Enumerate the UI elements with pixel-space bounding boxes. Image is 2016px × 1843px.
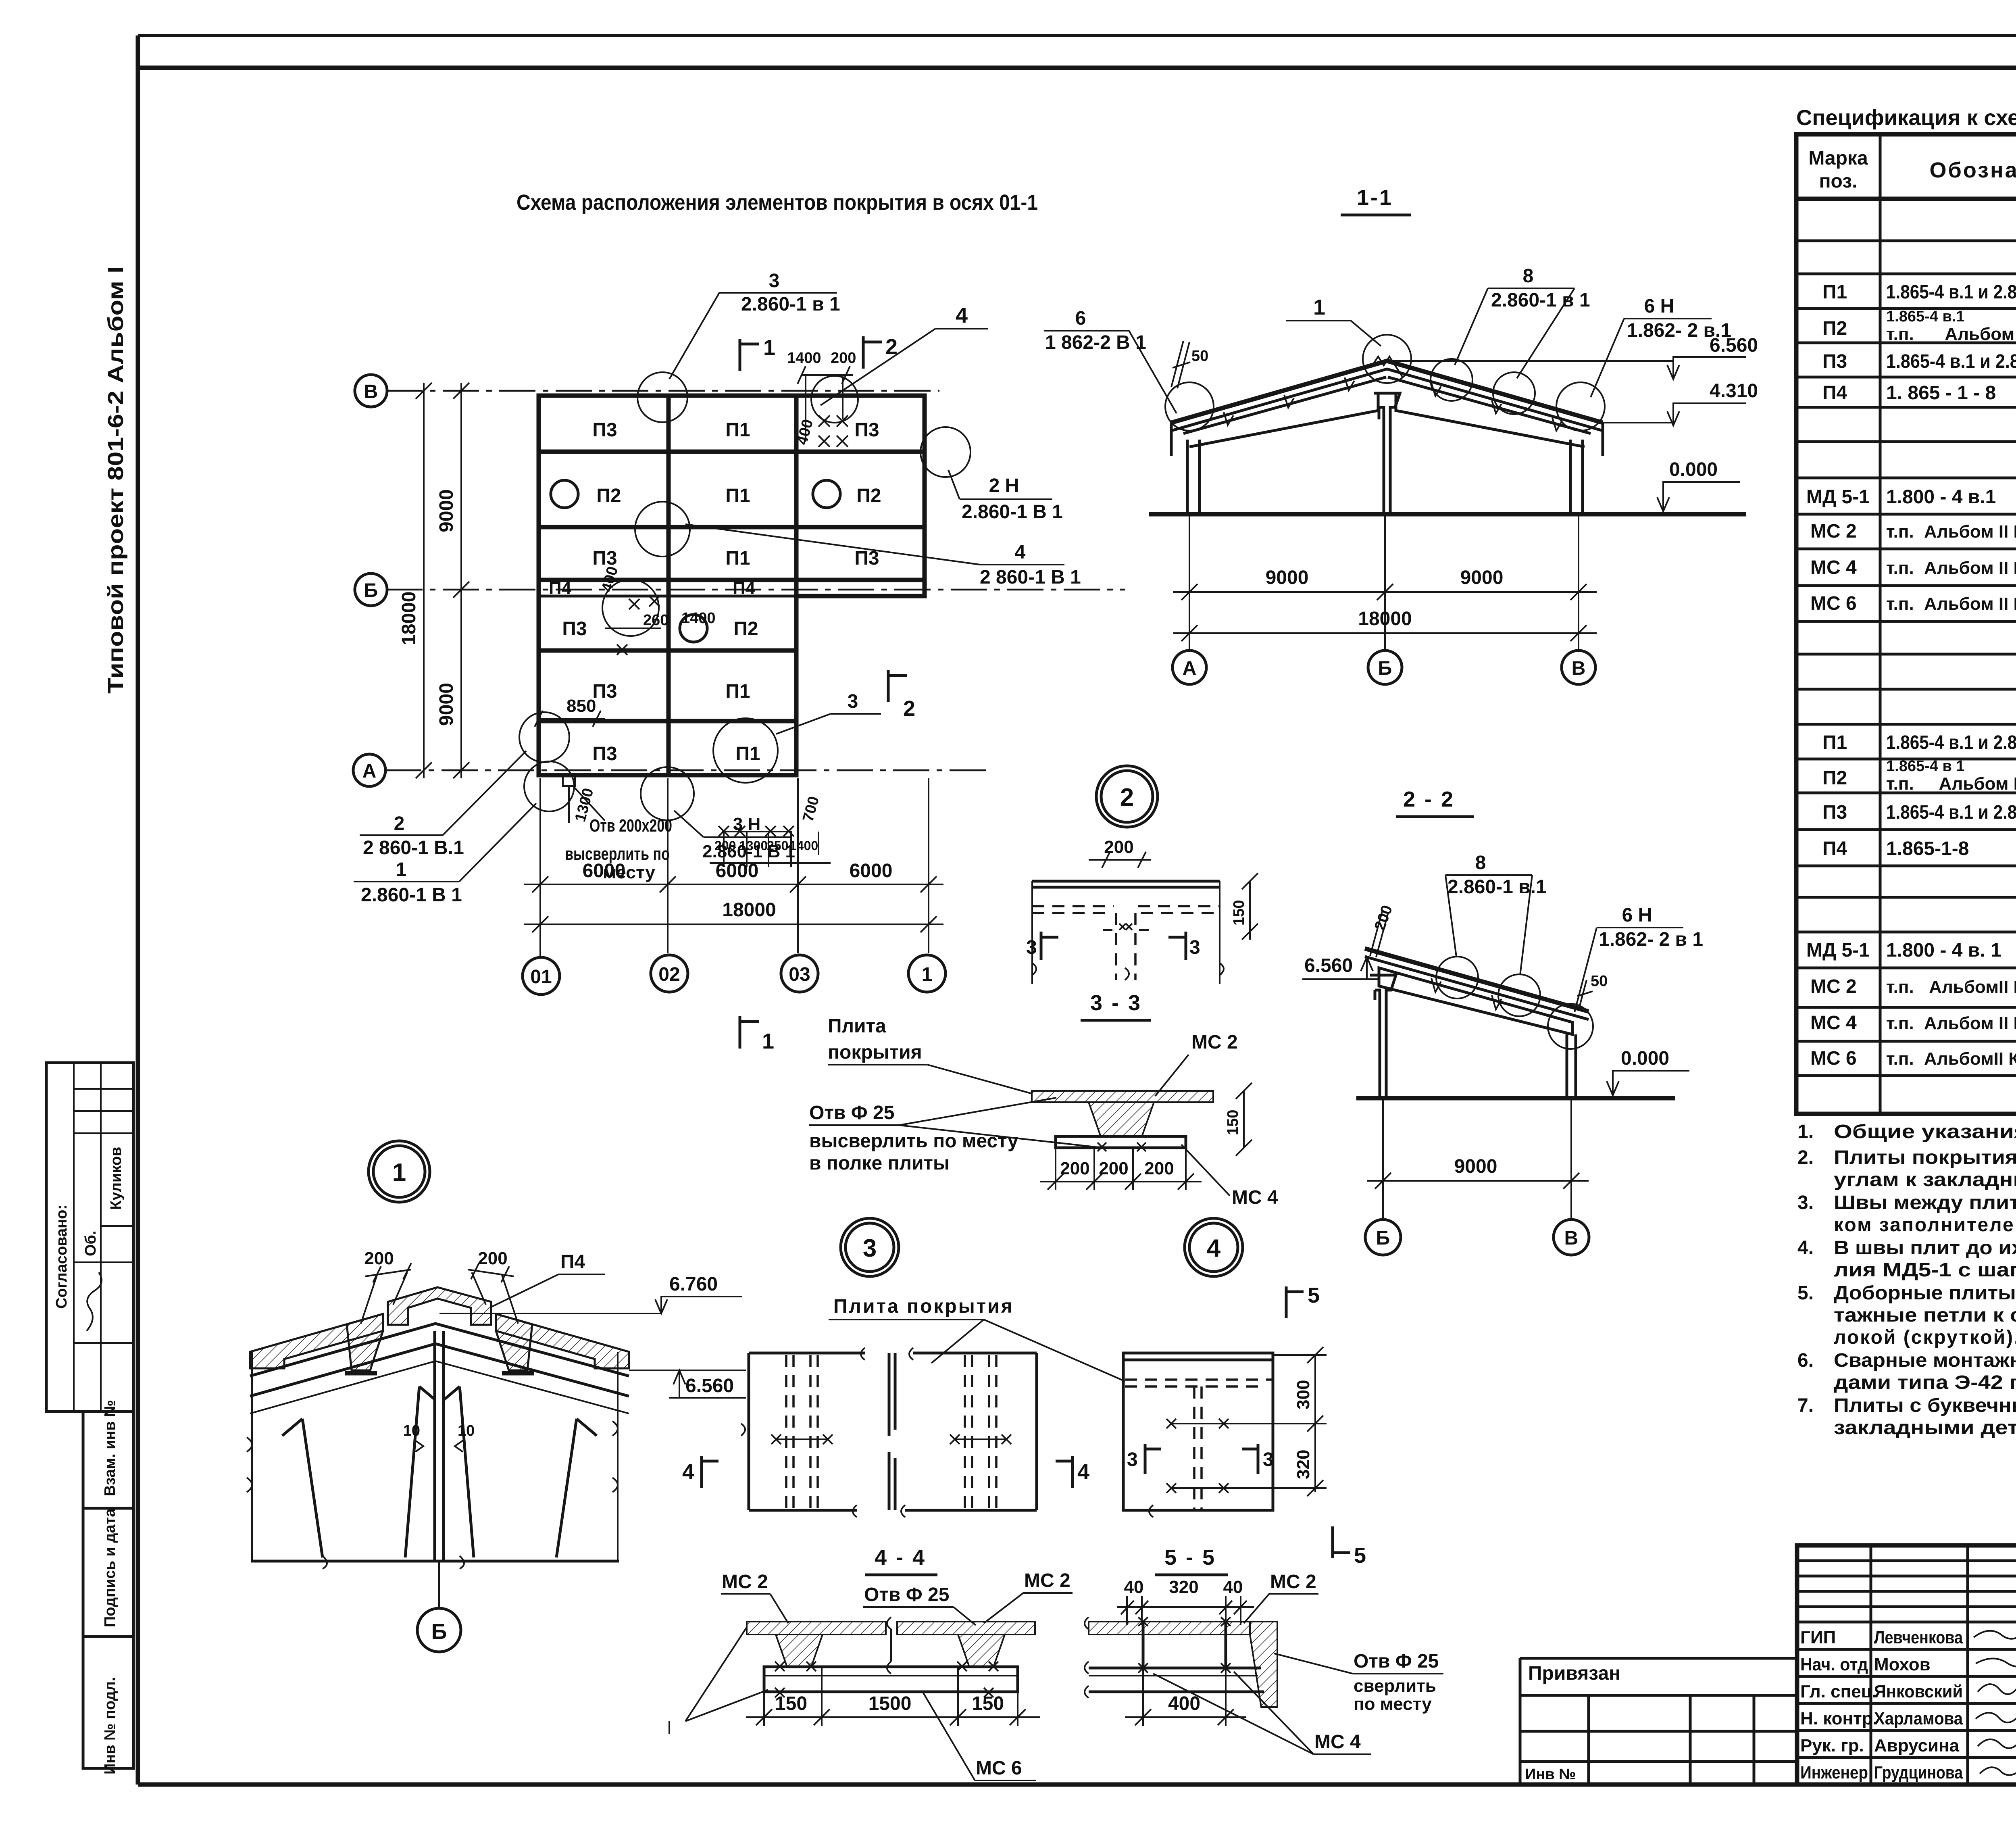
svg-text:П1: П1	[1822, 281, 1847, 303]
5-5 dims 40 320 40	[1126, 1596, 1128, 1625]
detail mark circles on plan	[637, 372, 687, 422]
svg-text:т.п.: т.п.	[1886, 594, 1914, 614]
svg-text:МС 4: МС 4	[1232, 1187, 1278, 1208]
svg-text:Отв Ф 25: Отв Ф 25	[809, 1102, 894, 1124]
roof plates top chord	[1171, 361, 1603, 423]
bottom dim extension lines	[539, 778, 541, 956]
svg-text:МС 4: МС 4	[1314, 1731, 1361, 1753]
left dim line 9000+9000	[460, 383, 462, 778]
svg-text:0.000: 0.000	[1621, 1048, 1669, 1069]
svg-text:Марка: Марка	[1808, 148, 1868, 169]
svg-text:П1: П1	[725, 681, 750, 702]
svg-text:т.п.: т.п.	[1886, 977, 1914, 997]
5-5 dim 400	[1142, 1668, 1144, 1726]
section flags 3	[1040, 932, 1043, 960]
left dim line 18000	[423, 383, 425, 778]
svg-text:3: 3	[769, 270, 780, 292]
svg-text:П3: П3	[592, 681, 617, 702]
svg-text:3: 3	[848, 691, 858, 712]
svg-text:П4: П4	[1822, 838, 1847, 859]
П4 ridge channel	[388, 1287, 491, 1325]
outer top line	[138, 34, 2016, 37]
svg-text:50: 50	[1191, 348, 1208, 365]
axis circle Б	[355, 573, 387, 606]
svg-text:Взам. инв №: Взам. инв №	[102, 1400, 119, 1496]
svg-text:2.: 2.	[1797, 1147, 1814, 1168]
svg-text:МС 2: МС 2	[1024, 1570, 1070, 1591]
svg-text:4: 4	[956, 303, 968, 327]
svg-text:Инженер: Инженер	[1800, 1763, 1868, 1783]
svg-text:П1: П1	[725, 485, 750, 507]
row lines	[1796, 241, 2016, 1076]
section flag 2 (top)	[862, 336, 865, 369]
svg-text:9000: 9000	[1460, 567, 1504, 588]
axis circles	[1365, 1220, 1401, 1255]
detail 2 and section 3-3	[0, 0, 0, 0]
svg-text:Инв № подл.: Инв № подл.	[102, 1677, 119, 1774]
svg-text:Об.: Об.	[82, 1230, 99, 1256]
svg-text:200: 200	[1104, 837, 1133, 857]
svg-text:Инв №: Инв №	[1525, 1766, 1576, 1783]
svg-text:2: 2	[394, 813, 405, 834]
break marks bottom	[1032, 963, 1224, 980]
axis circles	[1173, 650, 1206, 684]
plate joint ticks	[1224, 377, 1562, 431]
svg-text:1.800 - 4 в.1: 1.800 - 4 в.1	[1886, 486, 1996, 508]
svg-text:Янковский: Янковский	[1874, 1682, 1963, 1701]
svg-text:в полке плиты: в полке плиты	[809, 1153, 950, 1174]
svg-text:400: 400	[1168, 1693, 1200, 1714]
detail circle 2	[1096, 766, 1158, 827]
svg-text:Плита: Плита	[828, 1015, 886, 1037]
axis line Б	[386, 589, 1125, 591]
svg-text:4.310: 4.310	[1710, 380, 1758, 402]
svg-text:П1: П1	[725, 419, 750, 441]
dim 200 left	[365, 1270, 411, 1276]
svg-text:5: 5	[1308, 1283, 1320, 1307]
svg-text:А: А	[1183, 658, 1197, 679]
signature squiggle	[87, 1272, 102, 1331]
svg-text:18000: 18000	[722, 899, 776, 921]
svg-text:Рук. гр.: Рук. гр.	[1800, 1736, 1864, 1755]
svg-text:Гл. спец.: Гл. спец.	[1800, 1682, 1877, 1701]
4-4 bottom flange	[764, 1667, 1018, 1692]
svg-text:П1: П1	[735, 743, 760, 765]
svg-text:3 Н: 3 Н	[733, 814, 760, 834]
4-4 dims	[763, 1692, 765, 1726]
svg-text:40: 40	[1124, 1577, 1144, 1597]
svg-text:локой (скруткой).: локой (скруткой).	[1834, 1327, 2016, 1348]
svg-text:5.: 5.	[1797, 1282, 1814, 1304]
svg-text:П1: П1	[1822, 732, 1847, 753]
center joint double line	[433, 1331, 436, 1561]
svg-text:Альбом II КЖИ-МС6.000: Альбом II КЖИ-МС6.000	[1924, 594, 2016, 614]
svg-text:40: 40	[1223, 1577, 1243, 1597]
svg-text:Сварные монтажные соединения: Сварные монтажные соединения элементов п…	[1834, 1350, 2016, 1371]
svg-text:П2: П2	[1822, 318, 1847, 339]
svg-text:Отв Ф 25: Отв Ф 25	[1354, 1651, 1439, 1672]
svg-text:покрытия: покрытия	[828, 1042, 922, 1063]
detail circle 4	[1185, 1218, 1243, 1276]
svg-text:1: 1	[922, 964, 933, 985]
break marks on bottom line	[323, 1556, 464, 1569]
svg-text:Швы между плитами тщательно: Швы между плитами тщательно заделать бет…	[1834, 1192, 2016, 1213]
svg-text:2.860-1 В 1: 2.860-1 В 1	[962, 501, 1063, 523]
bottom line	[251, 1560, 619, 1563]
detail circle 3	[841, 1218, 899, 1276]
ground	[1356, 1096, 1675, 1101]
x marks П1 bottom cluster	[710, 826, 831, 867]
svg-text:В: В	[1572, 658, 1586, 679]
svg-text:поз.: поз.	[1819, 171, 1858, 192]
svg-text:1: 1	[763, 336, 775, 360]
svg-text:закладными деталями для кре: закладными деталями для крепления обреше…	[1834, 1417, 2016, 1439]
svg-text:Б: Б	[431, 1620, 447, 1644]
svg-text:6.560: 6.560	[1710, 335, 1758, 356]
привязан box	[1520, 1658, 1797, 1785]
svg-text:3: 3	[1026, 937, 1037, 958]
svg-text:Схема расположения элементов: Схема расположения элементов покрытия в …	[516, 190, 1038, 215]
hole square	[563, 774, 575, 786]
svg-text:А: А	[362, 761, 377, 782]
svg-text:т.п.: т.п.	[1886, 522, 1914, 542]
svg-text:4 - 4: 4 - 4	[875, 1545, 926, 1570]
svg-text:9000: 9000	[1266, 567, 1309, 588]
svg-text:10: 10	[403, 1422, 420, 1439]
svg-text:Спецификация к схеме распол: Спецификация к схеме расположения элемен…	[1796, 106, 2016, 130]
svg-text:200: 200	[1099, 1159, 1128, 1178]
svg-text:6000: 6000	[850, 860, 893, 882]
svg-text:2.860-1 В 1: 2.860-1 В 1	[702, 842, 795, 861]
svg-text:П3: П3	[592, 743, 617, 765]
signatures	[1974, 1626, 2016, 1775]
svg-text:1-1: 1-1	[1357, 186, 1393, 210]
section flag 5 top	[1285, 1286, 1288, 1318]
axis extension lines	[1189, 514, 1190, 650]
svg-text:200: 200	[364, 1249, 394, 1268]
side dim lines with breaks	[251, 1352, 253, 1561]
svg-text:6.560: 6.560	[1304, 955, 1353, 976]
svg-text:4: 4	[1207, 1234, 1221, 1262]
svg-text:150: 150	[775, 1693, 807, 1714]
svg-text:9000: 9000	[1454, 1156, 1497, 1177]
svg-text:П3: П3	[562, 618, 587, 640]
svg-text:Нач. отд: Нач. отд	[1800, 1655, 1868, 1674]
svg-text:Привязан: Привязан	[1528, 1663, 1620, 1684]
plan inner verticals	[666, 396, 671, 775]
svg-text:1.865-4 в.1 и 2.860-4,050 л: 1.865-4 в.1 и 2.860-4,050 л. 59	[1886, 281, 2016, 303]
850 dim	[539, 718, 605, 719]
svg-text:месту: месту	[603, 863, 656, 882]
svg-text:Плиты покрытия должны быть: Плиты покрытия должны быть приварены не …	[1834, 1147, 2016, 1168]
dim 150 right	[1249, 881, 1251, 940]
svg-text:П2: П2	[1822, 767, 1847, 789]
svg-text:18000: 18000	[1358, 608, 1412, 630]
detail 3: plate plan	[749, 1353, 1037, 1510]
svg-text:лия МД5-1 с шагом 1500 п: лия МД5-1 с шагом 1500 по узлу 8 серии 2…	[1834, 1259, 2016, 1281]
detail circles	[1436, 957, 1478, 999]
svg-text:2: 2	[903, 696, 915, 721]
ground line	[1149, 512, 1746, 517]
svg-text:ГИП: ГИП	[1800, 1628, 1836, 1647]
svg-text:50: 50	[1591, 973, 1608, 990]
svg-text:П3: П3	[1822, 802, 1847, 823]
dashed rib lines group2	[965, 1355, 996, 1508]
plate ticks	[1431, 978, 1502, 1009]
svg-text:6000: 6000	[716, 860, 759, 882]
dim line 6000s	[524, 884, 943, 885]
svg-text:1.: 1.	[1797, 1121, 1814, 1142]
svg-text:Левченкова: Левченкова	[1874, 1628, 1963, 1647]
svg-text:МС 6: МС 6	[1810, 1048, 1857, 1069]
3-3 slab band	[1032, 1091, 1213, 1102]
detail circles on 1-1	[1165, 382, 1214, 431]
section flags 4 around detail 3	[700, 1456, 703, 1488]
svg-text:Плиты с буквечным индексом: Плиты с буквечным индексом „Г" приняты с…	[1834, 1395, 2016, 1416]
dim 200 right	[468, 1270, 514, 1276]
50 mark right	[1577, 980, 1593, 1010]
4-4 ribs	[776, 1635, 823, 1667]
inner border bottom	[138, 1783, 2016, 1787]
svg-text:02: 02	[658, 964, 680, 985]
detail 2 and section 3-3	[809, 766, 1278, 1208]
svg-text:углам к закладным изделиям: углам к закладным изделиям балок, hш = 6…	[1834, 1169, 2016, 1190]
svg-text:1: 1	[762, 1029, 774, 1053]
svg-text:Б: Б	[1378, 658, 1392, 679]
svg-text:Куликов: Куликов	[108, 1147, 125, 1210]
svg-text:1400: 1400	[681, 610, 716, 627]
column lines	[1880, 134, 2016, 1114]
svg-text:АльбомII КЖИ-МС2.000: АльбомII КЖИ-МС2.000	[1929, 977, 2016, 997]
svg-text:2: 2	[1120, 784, 1134, 811]
svg-text:2 860-1 В.1: 2 860-1 В.1	[363, 837, 464, 859]
svg-text:Грудцинова: Грудцинова	[1874, 1763, 1963, 1783]
svg-text:150: 150	[972, 1693, 1004, 1714]
svg-text:8: 8	[1475, 852, 1486, 874]
svg-text:П2: П2	[856, 485, 881, 507]
svg-text:1500: 1500	[868, 1693, 912, 1714]
svg-text:дами типа Э-42 по ГОСТ 94: дами типа Э-42 по ГОСТ 9467-75 высота св…	[1834, 1372, 2016, 1393]
svg-text:4: 4	[1015, 542, 1026, 563]
svg-text:200: 200	[1371, 903, 1396, 933]
3-3 rib	[1089, 1102, 1154, 1136]
svg-text:Альбом II КЖИ-МС4.000: Альбом II КЖИ-МС4.000	[1924, 1013, 2016, 1033]
left slab rib	[347, 1314, 383, 1370]
left margin content	[46, 266, 133, 1774]
axis circle А	[353, 754, 385, 786]
svg-text:5 - 5: 5 - 5	[1164, 1545, 1216, 1570]
svg-text:МС 2: МС 2	[722, 1571, 768, 1593]
svg-text:1: 1	[392, 1159, 406, 1186]
svg-text:т.п.: т.п.	[1886, 324, 1914, 344]
axis leader to Б	[438, 1561, 440, 1608]
header bottom	[1796, 197, 2016, 201]
beam webs	[302, 1386, 419, 1557]
svg-text:высверлить по: высверлить по	[565, 844, 670, 864]
svg-text:МД 5-1: МД 5-1	[1806, 486, 1870, 508]
center break 4-4	[887, 1617, 891, 1674]
svg-text:6.560: 6.560	[685, 1375, 734, 1397]
svg-text:ком заполнителе: ком заполнителе	[1834, 1214, 2015, 1236]
detail 2: plate joint plan	[1032, 880, 1220, 883]
svg-text:6 Н: 6 Н	[1644, 296, 1674, 317]
svg-text:3: 3	[863, 1234, 877, 1262]
notes	[0, 0, 0, 0]
svg-text:П3: П3	[592, 419, 617, 441]
svg-text:2.860-1 в 1: 2.860-1 в 1	[741, 294, 840, 315]
svg-text:МС 2: МС 2	[1810, 521, 1857, 542]
section flags 3 inside detail 4	[1144, 1444, 1147, 1474]
svg-text:П4: П4	[560, 1251, 585, 1273]
svg-text:3: 3	[1263, 1449, 1274, 1470]
svg-text:01: 01	[530, 966, 552, 988]
plan inner horizontals	[539, 450, 925, 454]
dim 150 right of 3-3	[1243, 1091, 1245, 1148]
svg-text:Альбом II КЖИ-МС4.000: Альбом II КЖИ-МС4.000	[1924, 558, 2016, 578]
svg-text:1.800 - 4 в. 1: 1.800 - 4 в. 1	[1886, 940, 2001, 961]
svg-text:АльбомII КЖИ- МС6.000: АльбомII КЖИ- МС6.000	[1924, 1049, 2016, 1069]
beam	[1379, 968, 1572, 1034]
50 mark left eave	[1171, 341, 1190, 388]
svg-text:5: 5	[1354, 1543, 1366, 1568]
detail 4: plate corner plan	[1123, 1353, 1273, 1510]
svg-text:03: 03	[789, 964, 810, 985]
3-3 bottom plate МС4	[1056, 1136, 1186, 1148]
svg-text:Альбом II КЖИ-МС2.000: Альбом II КЖИ-МС2.000	[1924, 522, 2016, 542]
x marks top right cluster	[798, 366, 853, 447]
details 3,4 and sections 4-4,5-5	[669, 1218, 1443, 1780]
svg-text:тажные петли к смежным плит: тажные петли к смежным плитам покрытия в…	[1834, 1305, 2016, 1326]
svg-text:1: 1	[1313, 295, 1325, 319]
svg-text:т.п.: т.п.	[1886, 774, 1914, 794]
svg-text:Отв Ф 25: Отв Ф 25	[864, 1584, 949, 1605]
svg-text:7.: 7.	[1797, 1395, 1814, 1416]
table outline	[1796, 134, 2016, 1114]
svg-text:1.865-4 в.1 и 2.860-4,050 л.: 1.865-4 в.1 и 2.860-4,050 л. 59	[1886, 732, 2016, 753]
inner border top (heavy)	[138, 66, 2016, 70]
svg-text:Доборные плиты , устанавлива: Доборные плиты , устанавливаемые в коньк…	[1834, 1282, 2016, 1304]
svg-text:3.: 3.	[1797, 1192, 1814, 1213]
svg-text:1. 865 - 1 - 8: 1. 865 - 1 - 8	[1886, 382, 1996, 404]
svg-text:3 - 3: 3 - 3	[1090, 991, 1142, 1015]
svg-text:Б: Б	[364, 580, 378, 601]
svg-text:т.п.: т.п.	[1886, 558, 1914, 578]
svg-text:высверлить по месту: высверлить по месту	[809, 1130, 1018, 1152]
svg-text:2 860-1 В 1: 2 860-1 В 1	[980, 567, 1081, 588]
svg-text:П2: П2	[596, 485, 621, 507]
dims 300/320 right of detail 4	[1273, 1354, 1327, 1356]
roof plates band	[1365, 949, 1589, 1011]
svg-text:9000: 9000	[436, 489, 457, 532]
svg-text:Б: Б	[1376, 1228, 1390, 1249]
dashed rib lines group1	[786, 1355, 818, 1508]
detail circle 1	[369, 1141, 430, 1202]
left diagonal leaders 4-4	[685, 1627, 747, 1721]
svg-text:3: 3	[1127, 1449, 1138, 1470]
svg-text:18000: 18000	[398, 592, 420, 645]
column left	[1187, 440, 1200, 514]
title block	[0, 0, 0, 0]
section 2-2	[1302, 787, 1703, 1255]
svg-text:Типовой проект 801-6-2 Аль: Типовой проект 801-6-2 Альбом I	[104, 266, 128, 694]
svg-text:1: 1	[396, 859, 407, 880]
svg-text:по месту: по месту	[1354, 1694, 1432, 1714]
detail 1 ridge node	[0, 0, 0, 0]
svg-text:0.000: 0.000	[1669, 459, 1718, 480]
svg-text:П4: П4	[549, 578, 572, 598]
svg-text:200: 200	[478, 1249, 507, 1268]
plan outline	[539, 396, 925, 775]
svg-text:200: 200	[1144, 1159, 1174, 1178]
dim line 18000	[524, 924, 943, 925]
axis line В	[386, 390, 939, 392]
svg-text:1.865-1-8: 1.865-1-8	[1886, 838, 1969, 859]
svg-text:320: 320	[1293, 1450, 1313, 1479]
svg-text:150: 150	[1225, 1110, 1241, 1135]
svg-text:200: 200	[831, 350, 856, 367]
200 mark top left	[1370, 911, 1388, 957]
svg-text:700: 700	[800, 794, 823, 824]
svg-text:Харламова: Харламова	[1874, 1709, 1963, 1728]
dim 200	[1089, 859, 1151, 861]
column right	[1570, 440, 1583, 514]
svg-text:4: 4	[682, 1460, 694, 1484]
right slab	[496, 1314, 629, 1368]
title block	[1520, 1545, 2016, 1832]
left slab	[250, 1314, 383, 1368]
section 1-1	[1044, 186, 1758, 684]
svg-text:П1: П1	[725, 548, 750, 569]
svg-text:1400: 1400	[787, 350, 821, 367]
svg-text:сверлить: сверлить	[1354, 1676, 1436, 1696]
svg-text:4: 4	[1077, 1460, 1089, 1484]
left column with capital	[1370, 975, 1396, 1098]
svg-text:Обозначение: Обозначение	[1929, 158, 2016, 182]
roof beam left	[1183, 377, 1386, 447]
soglasovano box	[46, 1063, 133, 1411]
svg-text:10: 10	[458, 1422, 475, 1439]
svg-text:Подпись и дата: Подпись и дата	[102, 1508, 119, 1627]
svg-text:3: 3	[1189, 937, 1200, 958]
x-bars detail 3	[771, 1434, 1011, 1444]
svg-text:9000: 9000	[436, 683, 457, 726]
break marks 5-5	[1085, 1617, 1089, 1698]
roof beam right	[1388, 377, 1591, 447]
svg-text:Плита покрытия: Плита покрытия	[833, 1296, 1014, 1317]
svg-text:2.860-1 В 1: 2.860-1 В 1	[361, 884, 462, 906]
detail 1 ridge node	[247, 1141, 746, 1652]
svg-text:Альбом II КЖИП2.000: Альбом II КЖИП2.000	[1945, 324, 2016, 344]
notes	[1797, 1121, 2016, 1439]
svg-text:МС 2: МС 2	[1810, 976, 1857, 997]
svg-text:П4: П4	[1822, 382, 1847, 404]
svg-text:Мохов: Мохов	[1874, 1655, 1931, 1674]
svg-text:т.п.: т.п.	[1886, 1013, 1914, 1033]
svg-text:150: 150	[1231, 900, 1248, 926]
svg-text:т.п.: т.п.	[1886, 1049, 1914, 1069]
svg-text:МД 5-1: МД 5-1	[1806, 940, 1870, 961]
dim 9000	[1367, 1180, 1589, 1182]
5-5 bottom flange	[1089, 1667, 1261, 1670]
center double line	[888, 1353, 891, 1436]
svg-text:П4: П4	[733, 578, 756, 598]
svg-text:6 Н: 6 Н	[1622, 905, 1652, 926]
svg-text:2.860-1 в 1: 2.860-1 в 1	[1491, 290, 1590, 311]
section flag 5 bottom	[1331, 1526, 1334, 1558]
svg-text:Отв 200х200: Отв 200х200	[589, 816, 672, 836]
svg-text:В: В	[1564, 1228, 1579, 1249]
axis circle В	[355, 375, 387, 407]
